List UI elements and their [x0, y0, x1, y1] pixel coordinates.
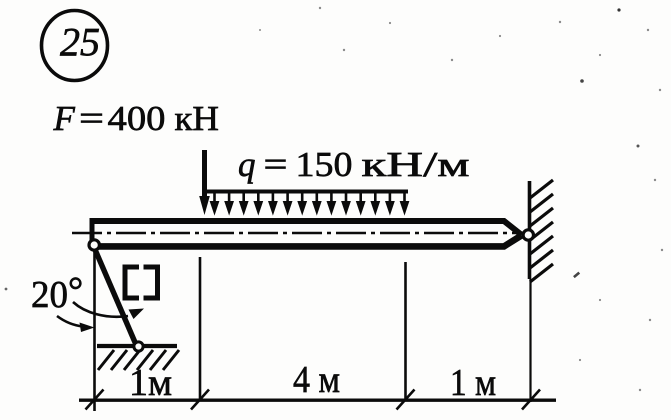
svg-text:25: 25 [60, 20, 100, 65]
dimension tick slash 1 [86, 390, 104, 410]
wall hatching [530, 180, 553, 282]
dimension tick slash 4 [522, 390, 540, 410]
beam bottom chord [95, 235, 522, 246]
force value label F = 400 kN [53, 99, 220, 138]
ground hatching [98, 350, 179, 370]
svg-text:4 м: 4 м [293, 359, 340, 401]
pin hinge at beam left end [89, 240, 99, 250]
beam centerline dash-dot [72, 232, 524, 235]
dimension tick slash 2 [191, 390, 209, 410]
force arrow F [199, 150, 210, 215]
ground line under strut [97, 344, 177, 348]
dimension extension line left (x=94.5) [93, 252, 96, 411]
dimension tick slash 3 [397, 390, 415, 410]
bracket symbol [ ] [125, 267, 158, 298]
pin hinge at strut base [134, 342, 143, 351]
dimension extension line at 1m (x=200) [199, 257, 202, 401]
pin hinge at wall [523, 230, 533, 240]
strut (inclined rod) [94, 246, 137, 347]
problem number circle 25 [42, 11, 108, 81]
svg-text:1м: 1м [129, 362, 172, 404]
dimension line [79, 399, 556, 402]
beam top chord [90, 221, 522, 235]
dimension extension line at 5m (x=405.5) [404, 262, 407, 401]
angle arc arrow to strut [73, 302, 144, 319]
distributed load arrows [210, 192, 408, 214]
beam left end cap [90, 218, 95, 241]
angle leader arrow to vertical line [57, 316, 95, 332]
svg-text:1 м: 1 м [450, 362, 496, 404]
distributed load label q = 150 kN/m [238, 145, 470, 184]
wall line [528, 181, 532, 279]
dimension extension line right under wall (x=531) [529, 279, 531, 402]
distributed load top bar [206, 190, 408, 194]
svg-text:20°: 20° [31, 270, 83, 316]
